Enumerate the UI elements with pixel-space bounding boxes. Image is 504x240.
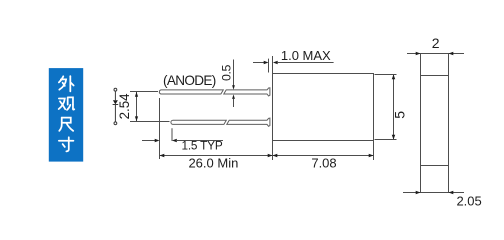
dimension lines 1.5 TYP (lead tip stagger) <box>142 98 223 159</box>
dimension line 2.05 (bottom thickness) <box>403 191 464 195</box>
dimension line 2 (top thickness) <box>407 52 464 56</box>
svg-text:(ANODE): (ANODE) <box>163 73 216 88</box>
svg-text:1.5 TYP: 1.5 TYP <box>181 139 222 153</box>
svg-text:5: 5 <box>391 111 407 119</box>
svg-text:0.5: 0.5 <box>220 64 234 81</box>
cathode lead (bottom), inner segment with flare into body <box>227 118 270 126</box>
LED body outline (front view) <box>273 74 374 141</box>
section label panel 外观尺寸 (appearance dimensions) <box>49 68 83 162</box>
svg-text:2.05: 2.05 <box>456 194 481 209</box>
dimension arrows 0.5 (lead thickness) <box>232 60 235 108</box>
char 尺 <box>59 118 73 131</box>
LED body outline (side view) with cap lines <box>421 54 449 193</box>
svg-text:1.0 MAX: 1.0 MAX <box>281 48 331 63</box>
svg-text:2: 2 <box>432 35 440 51</box>
svg-text:26.0 Min: 26.0 Min <box>188 156 238 171</box>
char 观 <box>59 97 75 110</box>
char 寸 <box>59 137 74 151</box>
dimension lines 7.08 (body length) <box>273 140 374 160</box>
cathode lead (bottom), outer segment with break <box>171 120 226 124</box>
dimension lines 5 (body height) <box>375 75 397 140</box>
dimension line 26.0 Min (lead length) <box>160 154 273 158</box>
anode lead (top), inner segment with flare into body <box>224 88 270 96</box>
svg-text:7.08: 7.08 <box>311 156 336 171</box>
char 外 <box>59 76 74 91</box>
anode lead (top), outer segment with break <box>159 90 223 94</box>
dimension lines 1.0 MAX (stand-off) <box>253 56 334 74</box>
diode polarity symbol between pins <box>113 88 119 124</box>
dimension lines 2.54 (lead pitch) <box>130 92 170 122</box>
svg-text:2.54: 2.54 <box>117 93 132 120</box>
